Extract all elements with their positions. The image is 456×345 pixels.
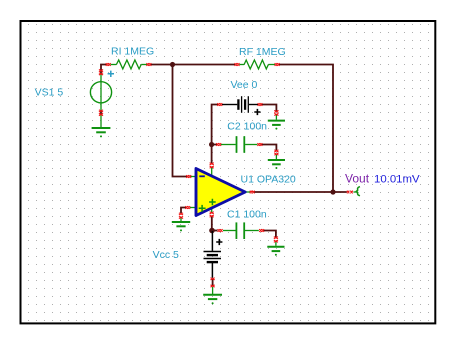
wire node B to RF left <box>173 64 236 66</box>
wire noninverting input to ground <box>181 208 187 214</box>
ground below noninverting input <box>172 218 190 232</box>
op-amp U1 output stub <box>246 191 251 193</box>
Vcc polarity plus <box>216 239 222 245</box>
op-amp U1 triangle <box>196 169 245 216</box>
op-amp U1 bottom supply stub <box>211 206 213 213</box>
capacitor C1 <box>223 222 259 239</box>
Vee polarity plus <box>254 109 260 115</box>
ground right of C2 <box>268 155 285 169</box>
wire VS1 top corner to RI left <box>101 65 107 71</box>
resistor RI <box>111 60 148 69</box>
pin marker VS1 bottom pair <box>99 110 103 116</box>
wire RF right to corner down to node C <box>279 65 333 193</box>
pin marker op-amp bottom supply pair <box>210 212 214 218</box>
op-amp U1 inverting input minus sign <box>199 175 205 177</box>
pin marker RF left <box>235 63 240 66</box>
resistor RF <box>239 60 275 69</box>
ground right of C1 <box>267 242 284 256</box>
pin marker C1 left <box>218 229 223 232</box>
ground right of Vee <box>268 115 285 130</box>
svg-text:Vee 0: Vee 0 <box>231 79 258 91</box>
output probe Vout lead <box>354 191 358 193</box>
wire node D to C1 left <box>212 230 218 232</box>
svg-text:Vout: Vout <box>345 171 370 185</box>
pin marker Vcc bottom pair <box>211 278 215 287</box>
pin marker VS1 top pair <box>99 70 103 76</box>
pin marker C2 left <box>216 143 221 146</box>
op-amp U1 noninverting input plus sign <box>199 205 206 212</box>
pin marker Vee right <box>258 103 263 106</box>
pin marker op-amp minus input <box>186 175 191 178</box>
node C junction dot <box>330 189 335 194</box>
op-amp U1 positive supply plus sign <box>209 199 216 206</box>
wire C1 right to ground corner <box>263 231 276 238</box>
capacitor C2 <box>221 136 257 153</box>
pin marker RI right <box>146 63 151 66</box>
svg-text:10.01mV: 10.01mV <box>374 173 420 185</box>
pin marker RI left <box>106 63 111 66</box>
wire VS1 pin gap bottom <box>100 111 102 115</box>
node D junction dot <box>209 228 215 234</box>
wire VS1 pin gap top <box>100 71 102 74</box>
pin marker C1 right <box>259 229 264 232</box>
op-amp U1 top supply stub <box>211 167 213 177</box>
svg-text:RF 1MEG: RF 1MEG <box>239 46 286 58</box>
pin marker Vee left <box>217 103 222 106</box>
battery Vee <box>222 96 258 113</box>
node rail/C2 junction dot <box>209 142 214 147</box>
pin marker plus-input ground pair <box>179 213 183 219</box>
wire Vee right to ground corner <box>261 105 276 112</box>
op-amp U1 input stub plus <box>190 207 196 209</box>
wire op-amp output to node C to probe <box>254 191 347 193</box>
wire Vee left to rail down to op-amp V+ pin <box>212 105 218 164</box>
battery Vcc <box>204 231 222 278</box>
svg-text:Vcc 5: Vcc 5 <box>153 249 179 261</box>
wire node B down to inverting input <box>173 65 188 177</box>
pin marker op-amp plus input <box>185 206 190 209</box>
svg-text:C1 100n: C1 100n <box>227 209 267 221</box>
svg-text:VS1 5: VS1 5 <box>35 87 64 99</box>
voltage source VS1 <box>90 75 111 128</box>
pin marker RF right <box>275 63 280 66</box>
pin marker op-amp output <box>250 191 255 194</box>
svg-text:RI 1MEG: RI 1MEG <box>111 46 154 58</box>
svg-text:U1 OPA320: U1 OPA320 <box>241 173 296 185</box>
pin marker C2 ground pair <box>274 150 278 155</box>
ground below Vcc <box>203 287 222 304</box>
pin marker C2 right <box>257 143 262 146</box>
pin marker probe pair <box>347 191 353 194</box>
ground below VS1 <box>92 128 111 137</box>
wire Vcc bottom pin gap <box>212 279 214 286</box>
output probe Vout bracket <box>356 187 360 196</box>
wire op-amp V- pin to node D <box>211 217 213 231</box>
wire RI right to node B <box>151 64 173 66</box>
pin marker Vee ground pair <box>274 110 278 115</box>
VS1 polarity plus <box>108 71 114 77</box>
node B junction dot <box>170 62 175 67</box>
wire rail to C2 left <box>212 144 217 146</box>
pin marker C1 ground pair <box>274 237 278 243</box>
wire C2 right to ground corner <box>262 145 277 151</box>
svg-text:C2 100n: C2 100n <box>227 121 267 133</box>
op-amp U1 input stub minus <box>190 176 196 178</box>
pin marker op-amp top supply pair <box>210 163 214 169</box>
